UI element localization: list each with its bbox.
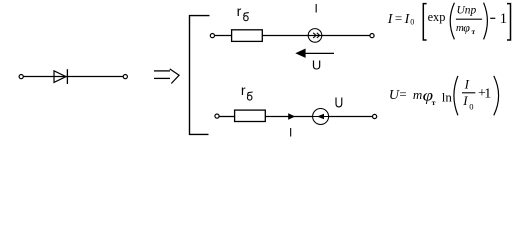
svg-text:ln: ln [442,90,453,105]
diode VD right terminal [123,75,127,79]
svg-text:U: U [389,88,400,103]
resistor R2 (r_b) [235,110,266,121]
eq1 big left paren [450,3,454,40]
svg-text:0: 0 [469,101,473,111]
J1 chevron 1 [313,33,316,38]
svg-text:φ: φ [463,20,470,34]
resistor R1 (r_b) [232,30,263,42]
svg-text:m: m [413,87,422,102]
svg-text:r: r [237,3,242,19]
svg-text:I: I [462,93,468,108]
eq1 right square bracket [507,4,511,40]
top circuit right terminal [370,34,374,38]
implication arrow chevron [170,69,179,84]
diode VD triangle [54,71,66,83]
svg-text:т: т [432,98,436,107]
wire terminal to R2 [219,116,235,118]
equation 2: U = m ft ln(I/I0 + 1) [389,76,499,115]
svg-text:т: т [472,28,476,36]
svg-text:1: 1 [484,87,491,102]
svg-text:I: I [315,2,318,16]
bottom circuit left terminal [215,114,219,118]
wire diode anode-cathode [24,76,124,78]
wire J1 to right terminal [322,35,370,37]
U arrow line [298,52,334,54]
svg-text:U: U [335,95,344,112]
eq1 fraction bar [456,18,482,20]
eq1 minus [490,17,495,19]
current source J1 circle [308,29,322,43]
eq2 big right paren [494,76,499,115]
svg-text:r: r [241,82,246,98]
wire R2 to source E1 [265,116,312,118]
wire through J1 [308,35,322,37]
implication arrow top stroke [154,70,170,72]
diode VD cathode bar [66,69,68,84]
bracket [190,16,210,135]
eq2 big left paren [454,76,458,115]
wire R1 to current source [262,35,309,37]
implication arrow bottom stroke [154,77,170,79]
svg-text:=: = [395,11,402,26]
E1 arrow head left [317,114,324,120]
svg-text:I: I [289,126,292,140]
wire E1 to right terminal [329,116,373,118]
diode VD left terminal [19,75,23,79]
source E1 circle [313,109,329,125]
svg-text:I: I [387,12,394,27]
svg-text:1: 1 [500,11,508,27]
bottom circuit right terminal [373,114,377,118]
svg-text:0: 0 [410,18,414,27]
svg-text:Uпр: Uпр [457,4,477,16]
svg-text:=: = [399,87,406,102]
svg-text:exp: exp [428,10,446,24]
svg-text:U: U [312,58,321,73]
eq1 left square bracket [423,4,426,40]
current direction arrow head I [288,113,295,120]
wire through E1 [313,116,329,118]
top circuit left terminal [210,34,214,38]
eq1 big right paren [484,3,488,40]
eq2 fraction bar [462,92,475,94]
wire terminal to R1 [215,35,232,37]
J1 chevron 2 [317,33,320,38]
U arrow head [295,49,305,58]
equation 1: I = I0[exp(Unp/mft)-1] [387,3,511,40]
svg-text:I: I [464,76,470,91]
